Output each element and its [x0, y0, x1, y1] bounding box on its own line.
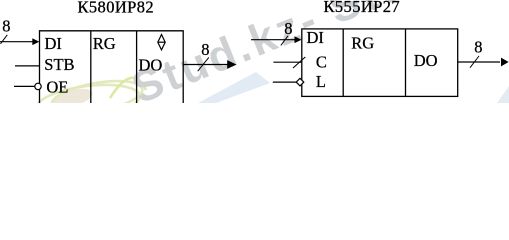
wire DI input bus — [0, 41, 34, 43]
inversion circle OE — [35, 83, 41, 89]
svg-text:8: 8 — [284, 19, 292, 38]
wire C input — [273, 61, 301, 63]
svg-text:DO: DO — [139, 55, 163, 74]
svg-text:8: 8 — [201, 40, 209, 59]
svg-text:DI: DI — [307, 28, 324, 47]
chip U1 К580ИР82 box — [40, 31, 184, 103]
wire DO output bus — [183, 64, 229, 66]
svg-text:К555ИР27: К555ИР27 — [324, 0, 401, 16]
bus slash — [198, 57, 209, 71]
svg-text:OE: OE — [46, 77, 68, 96]
svg-text:C: C — [316, 52, 327, 71]
wire DI input bus — [251, 39, 296, 41]
chip U2 К555ИР27 box — [302, 29, 458, 97]
svg-text:L: L — [316, 72, 326, 91]
polarity diamond L — [296, 78, 304, 86]
svg-text:STB: STB — [44, 55, 74, 74]
wire DO output bus — [458, 61, 500, 63]
svg-text:RG: RG — [93, 34, 116, 53]
bus slash — [470, 56, 479, 68]
svg-text:8: 8 — [2, 16, 10, 35]
watermark ellipses — [50, 85, 95, 111]
arrowhead DO output — [227, 60, 236, 69]
bus slash — [1, 35, 8, 44]
wire OE input — [14, 85, 35, 87]
bus slash — [281, 36, 288, 46]
svg-text:RG: RG — [351, 33, 374, 52]
arrowhead DI — [295, 36, 302, 43]
svg-text:DI: DI — [45, 34, 62, 53]
arrowhead DO output — [501, 58, 509, 67]
svg-text:DO: DO — [414, 51, 438, 70]
dynamic input slash C — [293, 57, 305, 68]
arrowhead DI — [32, 38, 39, 45]
watermark blue band — [198, 72, 270, 103]
tri-state diamond — [158, 35, 165, 50]
svg-text:К580ИР82: К580ИР82 — [78, 0, 155, 17]
wire STB input — [15, 65, 40, 67]
wire L input — [273, 81, 296, 83]
svg-text:8: 8 — [474, 38, 482, 57]
